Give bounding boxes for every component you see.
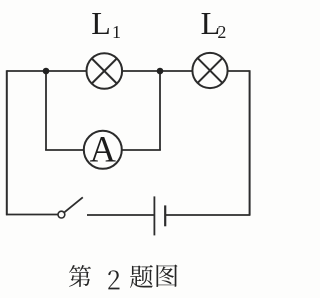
node B: junction dot right [157, 68, 164, 75]
caption text "图" [157, 264, 178, 287]
wire: ammeter branch left vertical from junction A down [45, 71, 47, 150]
lamp L1 [87, 53, 123, 89]
wire: ammeter branch bottom left horizontal [45, 149, 85, 151]
wire: ammeter branch right vertical up to junction B [159, 71, 161, 150]
wire: top conductor between L1 and L2 [122, 70, 193, 72]
node A: junction dot left [43, 68, 50, 75]
wire: ammeter branch bottom right horizontal [121, 149, 161, 151]
wire: bottom conductor from battery to right corner [166, 214, 250, 216]
wire: top conductor from L2 to right corner [228, 70, 250, 72]
battery: long plate (positive) [153, 196, 155, 235]
label L2 [201, 5, 227, 42]
battery: short plate (negative) [164, 205, 166, 226]
caption text "2" [108, 270, 119, 289]
ammeter U1 [84, 129, 122, 170]
lamp L2 [192, 53, 227, 88]
svg-text:2: 2 [217, 22, 226, 42]
wire: top conductor from left corner to L1 [7, 70, 87, 72]
wire: bottom conductor from left corner to switch [6, 214, 58, 216]
svg-text:A: A [90, 129, 117, 170]
svg-text:L: L [91, 5, 111, 41]
caption text "题" [130, 265, 153, 288]
wire: right vertical conductor [249, 70, 251, 215]
svg-text:1: 1 [112, 22, 121, 42]
label L1 [91, 5, 121, 42]
wire: left vertical conductor [6, 70, 8, 215]
caption text "第" [69, 265, 91, 287]
switch S1 [58, 197, 83, 218]
wire: bottom conductor from switch to battery [87, 214, 154, 216]
